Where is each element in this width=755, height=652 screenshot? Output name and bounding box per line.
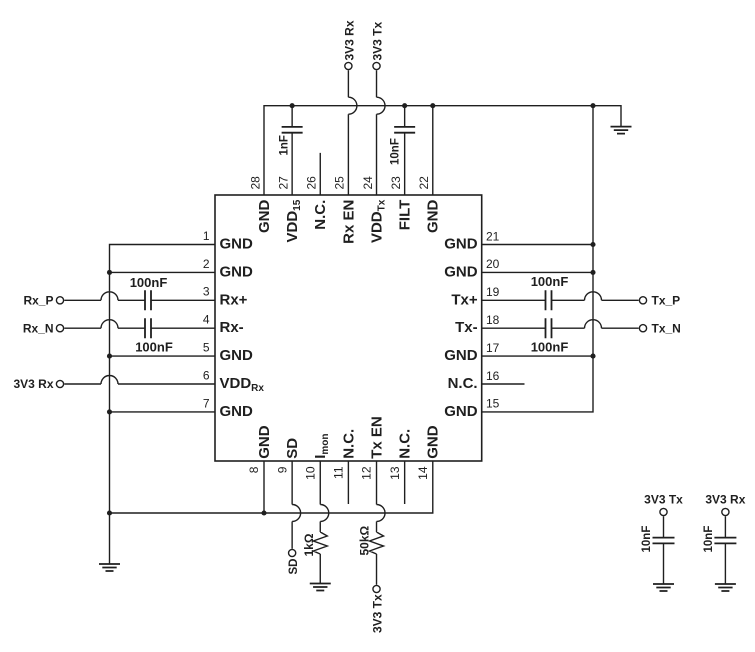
svg-text:Rx EN: Rx EN [340,200,357,244]
svg-text:18: 18 [486,313,500,327]
svg-text:7: 7 [203,396,210,410]
svg-text:GND: GND [220,263,254,280]
svg-text:10nF: 10nF [703,526,715,553]
svg-text:8: 8 [247,466,261,473]
svg-text:1: 1 [203,229,210,243]
svg-text:GND: GND [220,403,254,420]
svg-text:3V3 Rx: 3V3 Rx [13,377,53,391]
svg-text:GND: GND [444,236,478,253]
svg-text:17: 17 [486,341,500,355]
svg-text:GND: GND [444,263,478,280]
svg-text:100nF: 100nF [135,340,173,355]
svg-text:Rx+: Rx+ [220,291,248,308]
svg-text:GND: GND [444,347,478,364]
svg-text:VDDTx: VDDTx [368,199,387,243]
svg-text:12: 12 [360,466,374,480]
svg-text:GND: GND [256,425,273,459]
svg-text:100nF: 100nF [531,340,569,355]
svg-text:2: 2 [203,257,210,271]
svg-text:13: 13 [388,466,402,480]
svg-text:5: 5 [203,341,210,355]
svg-text:26: 26 [305,176,319,190]
svg-text:N.C.: N.C. [448,375,478,392]
svg-text:Rx_P: Rx_P [23,294,53,308]
svg-text:GND: GND [220,347,254,364]
svg-text:SD: SD [288,559,300,575]
svg-text:1nF: 1nF [278,135,290,155]
svg-text:GND: GND [256,200,273,234]
svg-text:15: 15 [486,397,500,411]
svg-text:10nF: 10nF [390,138,402,165]
svg-text:GND: GND [425,200,442,234]
svg-text:27: 27 [276,176,290,190]
svg-text:20: 20 [486,257,500,271]
svg-text:100nF: 100nF [531,274,569,289]
svg-text:50kΩ: 50kΩ [357,525,371,555]
svg-text:N.C.: N.C. [312,200,329,230]
svg-text:25: 25 [333,176,347,190]
svg-text:19: 19 [486,285,500,299]
svg-text:10: 10 [303,466,317,480]
svg-text:28: 28 [248,176,262,190]
svg-text:16: 16 [486,369,500,383]
svg-text:GND: GND [444,403,478,420]
svg-text:10nF: 10nF [641,526,653,553]
svg-text:Tx_P: Tx_P [652,294,681,308]
svg-text:VDD15: VDD15 [284,199,303,242]
svg-text:6: 6 [203,368,210,382]
svg-text:Imon: Imon [312,434,331,459]
svg-text:FILT: FILT [397,200,414,231]
svg-text:100nF: 100nF [130,275,168,290]
svg-text:11: 11 [332,466,346,479]
svg-text:14: 14 [416,466,430,480]
svg-text:3V3 Rx: 3V3 Rx [342,20,356,60]
svg-text:3V3 Rx: 3V3 Rx [705,493,745,507]
svg-text:23: 23 [389,176,403,190]
svg-text:GND: GND [220,236,254,253]
svg-text:VDDRx: VDDRx [220,375,265,394]
svg-text:24: 24 [361,176,375,190]
svg-text:3V3 Tx: 3V3 Tx [370,21,384,60]
svg-text:3V3 Tx: 3V3 Tx [370,594,384,633]
svg-text:GND: GND [425,425,442,459]
svg-text:SD: SD [284,438,301,459]
svg-text:1kΩ: 1kΩ [302,533,316,556]
svg-text:Tx EN: Tx EN [368,416,385,459]
svg-text:N.C.: N.C. [340,429,357,459]
svg-text:Tx+: Tx+ [451,291,478,308]
svg-text:Tx-: Tx- [455,319,478,336]
svg-text:Rx-: Rx- [220,319,244,336]
svg-text:21: 21 [486,229,500,243]
svg-text:9: 9 [275,466,289,473]
svg-text:3: 3 [203,285,210,299]
svg-text:22: 22 [417,176,431,190]
svg-text:3V3 Tx: 3V3 Tx [644,493,683,507]
svg-text:4: 4 [203,313,210,327]
svg-text:N.C.: N.C. [397,429,414,459]
svg-text:Tx_N: Tx_N [652,321,681,335]
svg-text:Rx_N: Rx_N [23,321,54,335]
